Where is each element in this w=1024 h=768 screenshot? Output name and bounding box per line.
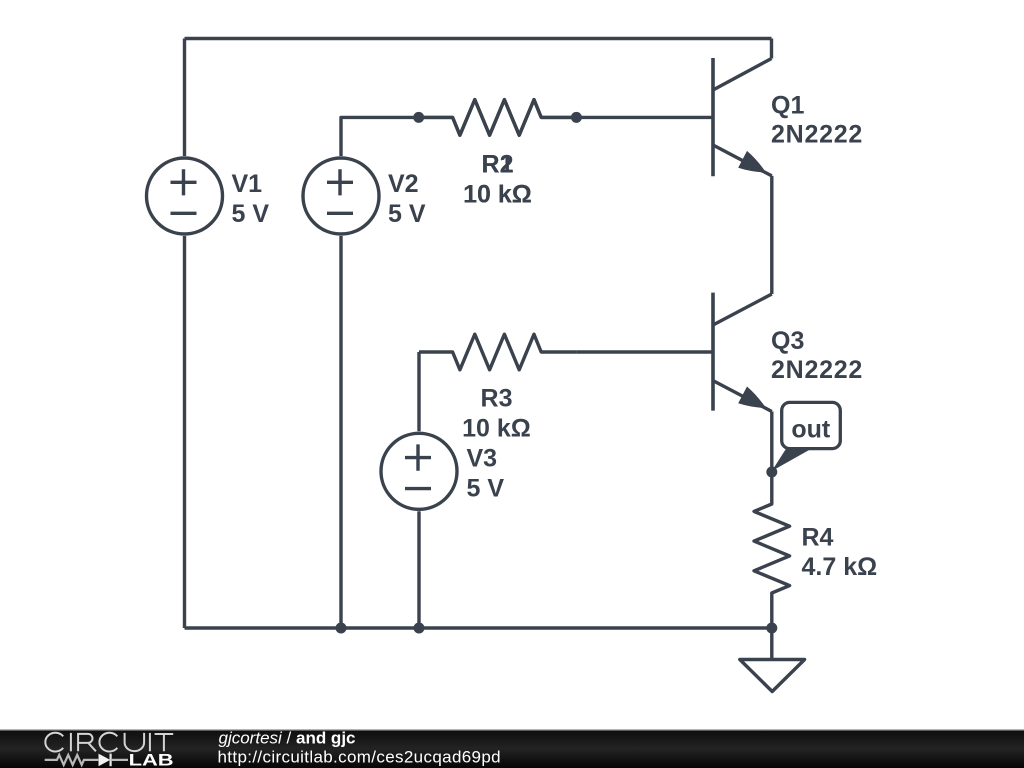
label V3 value (467, 444, 505, 502)
wire: top rail (185, 37, 772, 40)
label R2 value (463, 151, 532, 209)
ground (740, 628, 805, 692)
svg-text:V2: V2 (388, 170, 419, 198)
junction node: out (766, 467, 777, 478)
wire: bottom ground rail (185, 626, 772, 629)
CircuitLab logo: CIRCUIT wordmark (45, 733, 173, 752)
label V1 value (232, 170, 270, 228)
wire: V3 top lead (417, 352, 420, 431)
svg-text:Q3: Q3 (771, 327, 804, 355)
svg-text:2N2222: 2N2222 (771, 356, 863, 384)
node flag: out (772, 402, 841, 471)
svg-text:10 kΩ: 10 kΩ (462, 414, 531, 442)
junction node: V3 bottom (414, 623, 425, 634)
junction node: R1/R2 right (571, 112, 582, 123)
svg-text:5 V: 5 V (388, 200, 426, 228)
svg-text:4.7 kΩ: 4.7 kΩ (802, 553, 878, 581)
CircuitLab logo: resistor-diode squiggle (45, 754, 128, 767)
junction node: R1/R2 left (413, 112, 424, 123)
svg-text:10 kΩ: 10 kΩ (463, 181, 532, 209)
resistor R4 (754, 472, 790, 628)
wire: V1 bottom lead (183, 236, 186, 628)
resistor R3 (419, 334, 576, 370)
label V2 value (388, 170, 426, 228)
wire: V2 top lead (341, 117, 419, 156)
svg-text:V1: V1 (232, 170, 263, 198)
svg-text:5 V: 5 V (467, 474, 505, 502)
transistor Q1 (713, 58, 772, 176)
label Q1 part (771, 91, 863, 148)
wire: Q3 emitter down to node out (770, 412, 773, 473)
junction node: R4 bottom / ground (766, 623, 777, 634)
wire: R2 to Q1 base (576, 116, 713, 119)
voltage source V2 (303, 158, 379, 234)
svg-text:out: out (791, 416, 831, 444)
resistor R2 (419, 100, 577, 136)
label R3 value (462, 384, 531, 442)
voltage source V1 (147, 158, 223, 234)
svg-text:Q1: Q1 (771, 91, 804, 119)
svg-text:5 V: 5 V (232, 200, 270, 228)
wire: R3 to Q3 base (576, 350, 713, 353)
wire: V3 bottom lead (417, 511, 420, 628)
svg-text:LAB: LAB (129, 752, 174, 768)
label R1 value (overlaps R2) (463, 151, 532, 209)
wire: V2 bottom lead (339, 236, 342, 628)
svg-text:R4: R4 (802, 523, 834, 551)
transistor Q3 (713, 293, 772, 412)
label R4 value (802, 523, 878, 581)
svg-text:gjcortesi / and gjc: gjcortesi / and gjc (219, 729, 356, 748)
junction node: V2 bottom (336, 623, 347, 634)
svg-text:R3: R3 (481, 384, 513, 412)
svg-text:R2: R2 (482, 151, 514, 179)
svg-text:2N2222: 2N2222 (771, 120, 863, 148)
svg-text:http://circuitlab.com/ces2ucqa: http://circuitlab.com/ces2ucqad69pd (218, 748, 501, 767)
footer bar (0, 730, 1024, 768)
label Q3 part (771, 327, 863, 384)
wire: Q1 emitter to Q3 collector (770, 176, 773, 294)
wire: top rail drop to Q1 collector (770, 39, 773, 59)
wire: V1 top lead to top rail (183, 39, 186, 157)
resistor R1 (419, 100, 577, 136)
voltage source V3 (381, 433, 457, 509)
svg-text:V3: V3 (467, 444, 498, 472)
